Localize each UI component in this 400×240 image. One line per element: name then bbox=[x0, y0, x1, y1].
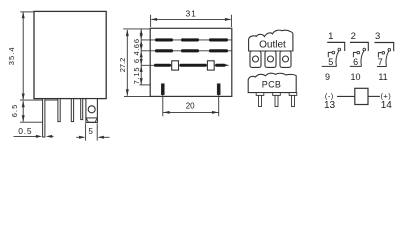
fixed contact circle pin6 bbox=[357, 51, 360, 54]
svg-text:31: 31 bbox=[185, 8, 196, 18]
svg-text:2: 2 bbox=[351, 31, 356, 42]
pcb pin 3 bbox=[289, 93, 297, 96]
moving contact circle bbox=[388, 48, 391, 51]
moving contact circle bbox=[363, 48, 366, 51]
svg-text:6: 6 bbox=[353, 57, 358, 67]
row3 pin b bbox=[180, 64, 207, 67]
svg-text:10: 10 bbox=[350, 72, 360, 82]
svg-text:6.5: 6.5 bbox=[10, 104, 19, 118]
pcb pin 2 bbox=[273, 93, 281, 96]
pcb pin 1 bbox=[256, 93, 264, 96]
pin 6 wire bbox=[353, 52, 357, 57]
row2 pin c bbox=[209, 49, 228, 52]
pin A bbox=[58, 99, 60, 122]
svg-text:3: 3 bbox=[375, 31, 380, 42]
svg-text:5: 5 bbox=[328, 57, 333, 67]
row3 pin c bbox=[215, 64, 225, 67]
svg-text:9: 9 bbox=[325, 72, 330, 82]
svg-text:Outlet: Outlet bbox=[259, 40, 286, 51]
dimension 27.2 bbox=[123, 28, 150, 30]
pin C bbox=[81, 99, 83, 120]
dimension 5 arrows bbox=[76, 136, 83, 138]
outlet tab 3 bbox=[280, 51, 291, 67]
dimension 31 extension lines bbox=[150, 15, 152, 27]
side view pin left bbox=[161, 84, 164, 95]
blade bbox=[361, 51, 364, 67]
row1 pin c bbox=[209, 38, 228, 41]
row3 socket 1 bbox=[172, 61, 179, 70]
outlet terminal view body bbox=[249, 30, 293, 51]
long pin bbox=[43, 99, 45, 137]
pin 11 wire bbox=[377, 66, 387, 68]
fixed contact circle pin7 bbox=[382, 52, 385, 55]
svg-text:27.2: 27.2 bbox=[118, 58, 127, 73]
row1 pin a bbox=[155, 38, 173, 41]
svg-text:6: 6 bbox=[132, 59, 141, 63]
svg-text:11: 11 bbox=[378, 72, 387, 82]
pin 10 wire bbox=[350, 65, 362, 67]
moving contact circle bbox=[338, 48, 341, 51]
dimension 0.5 arrows bbox=[14, 135, 41, 137]
tab notch bbox=[86, 117, 98, 119]
svg-text:0.5: 0.5 bbox=[18, 126, 32, 136]
dimension 31 line bbox=[152, 18, 231, 20]
pin row line 2 bbox=[141, 50, 231, 52]
dimension 6.5 line bbox=[22, 101, 24, 122]
pcb terminal view body bbox=[248, 73, 296, 92]
dimension 35.4 line bbox=[22, 13, 24, 100]
coil bbox=[355, 88, 368, 104]
svg-text:35.4: 35.4 bbox=[7, 46, 16, 65]
pin B bbox=[71, 99, 73, 122]
row2 pin a bbox=[155, 49, 173, 52]
pin 7 wire bbox=[378, 53, 382, 58]
coil wire right bbox=[368, 95, 380, 97]
mounting tab bbox=[86, 99, 98, 123]
relay front view body bbox=[34, 11, 106, 98]
svg-text:14: 14 bbox=[381, 100, 393, 111]
bottom extension line bbox=[20, 99, 60, 101]
side view pin right bbox=[217, 84, 220, 95]
mounting plane extension bbox=[140, 84, 151, 86]
coil wire left bbox=[337, 95, 355, 97]
svg-text:13: 13 bbox=[324, 100, 336, 111]
outlet tab 1 bbox=[250, 51, 261, 67]
pin row line 3 with arrow bbox=[141, 64, 222, 66]
svg-text:7.15: 7.15 bbox=[132, 67, 141, 85]
svg-text:PCB: PCB bbox=[262, 79, 281, 89]
relay side view body bbox=[150, 28, 232, 96]
blade bbox=[386, 51, 389, 67]
dimension 5 extension lines bbox=[85, 123, 87, 140]
row1 pin b bbox=[181, 38, 199, 41]
row3 socket 2 bbox=[207, 61, 214, 70]
pin row line 1 bbox=[141, 39, 231, 41]
blade bbox=[336, 51, 339, 67]
pin 5 wire bbox=[328, 52, 332, 57]
row3 pin a bbox=[154, 64, 171, 67]
dimension 20 line with arrows bbox=[163, 111, 219, 113]
top extension line bbox=[20, 11, 34, 13]
svg-text:7: 7 bbox=[378, 57, 383, 67]
dimension 20 extension lines bbox=[162, 95, 164, 116]
svg-text:6: 6 bbox=[132, 39, 141, 43]
fixed contact circle pin5 bbox=[332, 51, 335, 54]
svg-text:20: 20 bbox=[186, 102, 195, 111]
pin tip extension line bbox=[20, 121, 43, 123]
svg-text:5: 5 bbox=[88, 127, 93, 136]
outlet tab 2 bbox=[265, 51, 276, 67]
pin 9 wire bbox=[322, 65, 337, 67]
svg-text:1: 1 bbox=[328, 31, 333, 42]
tab hole bbox=[88, 106, 95, 113]
row2 pin b bbox=[181, 49, 199, 52]
svg-text:4.6: 4.6 bbox=[132, 44, 141, 56]
chain dimension line bbox=[140, 29, 142, 85]
